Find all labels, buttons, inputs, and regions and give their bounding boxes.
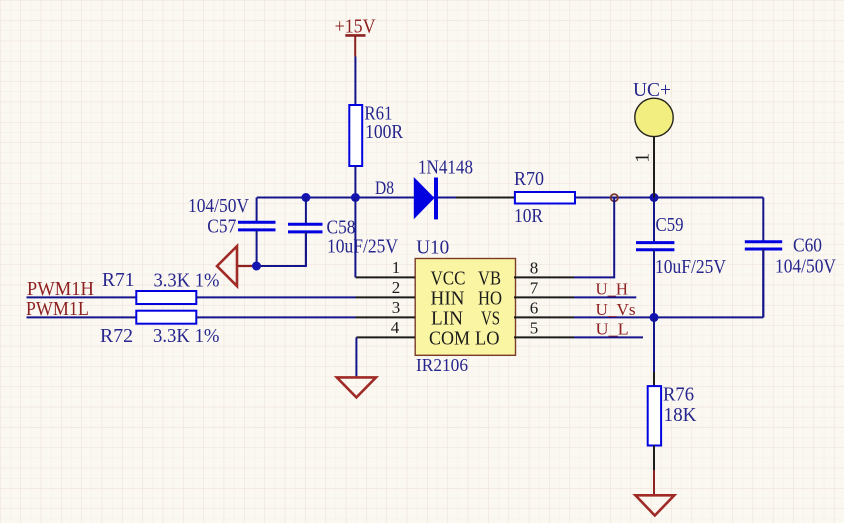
svg-text:HIN: HIN [431,288,465,310]
resistor R71 [102,269,220,304]
svg-text:C57: C57 [207,215,236,237]
svg-text:VB: VB [478,268,501,290]
svg-text:10uF/25V: 10uF/25V [327,236,398,258]
wire +15V to R61 [354,57,356,106]
wire C60 bottom to VS [762,249,764,317]
svg-text:LO: LO [475,328,500,350]
wire pin4 to ground [355,337,357,377]
svg-text:VCC: VCC [431,268,466,290]
svg-text:R76: R76 [663,384,694,406]
svg-text:U_Vs: U_Vs [596,300,636,319]
svg-text:U_L: U_L [596,320,629,339]
power port +15V [335,16,376,57]
svg-text:IR2106: IR2106 [416,355,468,375]
pin 8 [514,276,574,278]
IC U10 IR2106 body [415,236,515,374]
pin 7 [514,296,574,298]
pin 2 [356,296,416,298]
wire node down to pin 8 [574,198,614,278]
ground rail under C57/C58 [257,232,306,266]
wire R71 to pin2 [196,296,355,298]
svg-text:3.3K 1%: 3.3K 1% [153,325,220,347]
connector UC+ [632,79,674,198]
junction UC+/C59/rail [650,193,659,202]
svg-text:HO: HO [478,288,502,310]
junction R61/rail [351,193,360,202]
wire diode cathode to R70 [438,197,456,199]
pin 3 [356,316,416,318]
resistor R76 [648,384,697,446]
svg-text:2: 2 [392,278,401,297]
ground symbol left (power gnd) [217,246,237,286]
svg-text:6: 6 [530,299,539,318]
svg-text:18K: 18K [664,404,698,426]
svg-text:U_H: U_H [596,279,629,298]
capacitor C60 [745,198,837,318]
svg-text:10R: 10R [514,205,544,227]
resistor R70 [514,168,575,227]
svg-text:100R: 100R [365,121,404,143]
resistor R72 [100,311,220,348]
wire R72 to pin3 [196,316,355,318]
svg-text:1: 1 [632,153,654,163]
wire pin5 LO net [574,336,643,338]
pin 6 [514,316,574,318]
wire PWM1H to R71 [27,296,137,298]
svg-text:VS: VS [481,308,500,330]
svg-text:104/50V: 104/50V [775,256,836,278]
wire node to C60 corner [614,197,763,199]
svg-text:104/50V: 104/50V [188,195,249,217]
wire rail to pin1 [354,198,356,278]
ground stub (red) [237,265,257,267]
wire R76 to ground [653,446,655,471]
svg-text:5: 5 [530,319,539,338]
svg-text:7: 7 [530,279,539,298]
svg-text:10uF/25V: 10uF/25V [655,256,726,278]
ground symbol below pin 4 [337,377,376,397]
svg-text:U10: U10 [416,236,449,258]
wire pin6 VS net [574,316,763,318]
wire VS junction down to R76 [653,317,655,372]
wire pin7 HO net [574,296,636,298]
svg-text:C60: C60 [793,235,822,257]
wire PWM1L to R72 [27,316,137,318]
svg-text:LIN: LIN [431,308,463,330]
svg-text:C59: C59 [656,214,684,236]
svg-text:R70: R70 [514,168,544,190]
capacitor C59 [636,198,726,318]
svg-text:1: 1 [392,258,401,277]
svg-text:3: 3 [392,298,401,317]
resistor R61 [349,103,403,167]
no-ERC marker [611,194,618,201]
pin 1 [356,276,416,278]
wire R61 to rail [354,166,356,198]
junction C58/rail [301,193,310,202]
pin 5 [514,336,574,338]
ground symbol below R76 [635,495,674,515]
svg-text:R72: R72 [100,325,133,347]
svg-text:1N4148: 1N4148 [418,156,473,178]
svg-text:3.3K 1%: 3.3K 1% [154,269,220,291]
svg-text:COM: COM [429,328,470,350]
svg-text:D8: D8 [375,179,394,199]
capacitor C58 [288,198,398,267]
svg-text:R71: R71 [102,269,135,291]
pin 4 [356,336,415,338]
junction ground rail [252,262,261,271]
capacitor C57 [188,195,276,266]
svg-text:4: 4 [391,318,400,337]
diode D8 1N4148 [375,156,473,219]
main top rail wire [257,197,438,199]
wire R70 to node [575,197,614,199]
svg-text:8: 8 [530,258,539,277]
junction VS/C59/R76 [650,313,659,322]
